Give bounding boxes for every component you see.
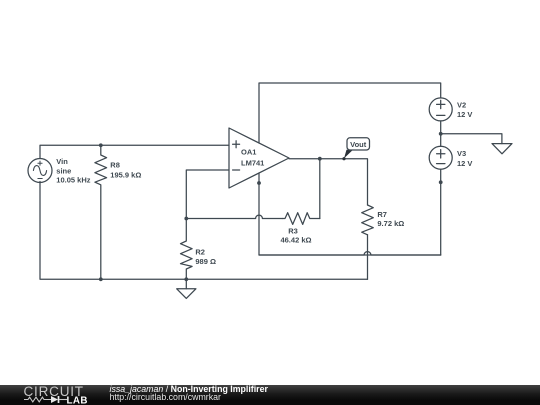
- node output junction: [318, 157, 322, 161]
- svg-text:V2: V2: [457, 100, 466, 109]
- footer bar: [0, 385, 540, 405]
- node supply mid junction: [439, 132, 443, 136]
- svg-text:V3: V3: [457, 149, 466, 158]
- ground under R2: [177, 279, 196, 298]
- svg-text:12 V: 12 V: [457, 159, 472, 168]
- wire junction to right ground: [441, 134, 502, 144]
- svg-text:R7: R7: [377, 210, 387, 219]
- wire Vin bottom: [40, 182, 368, 280]
- svg-text:989 Ω: 989 Ω: [195, 257, 216, 266]
- label R8 value: [110, 160, 141, 179]
- wire op-amp V+ supply: [259, 83, 441, 143]
- label V3 value: [457, 149, 472, 168]
- svg-text:Vin: Vin: [56, 157, 68, 166]
- resistor R3: [283, 213, 320, 225]
- svg-text:195.9 kΩ: 195.9 kΩ: [110, 171, 141, 180]
- wire output row: [289, 159, 368, 205]
- svg-text:R2: R2: [195, 247, 205, 256]
- svg-text:46.42 kΩ: 46.42 kΩ: [280, 236, 311, 245]
- resistor R7: [362, 205, 374, 235]
- node inverting node junction: [184, 217, 188, 221]
- voltage source V3: [429, 146, 452, 169]
- wire feedback row with hop: [186, 215, 282, 218]
- svg-text:9.72 kΩ: 9.72 kΩ: [377, 219, 404, 228]
- svg-text:10.05 kHz: 10.05 kHz: [56, 176, 90, 185]
- svg-text:12 V: 12 V: [457, 110, 472, 119]
- resistor R2: [181, 219, 193, 280]
- node below V3 junction: [439, 180, 443, 184]
- resistor R8: [95, 145, 107, 279]
- op-amp OA1: [229, 128, 289, 188]
- CircuitLab logo: [18, 385, 114, 405]
- svg-text:LAB: LAB: [67, 395, 88, 405]
- wire V2 to junction: [440, 121, 442, 146]
- label R7 value: [377, 210, 404, 228]
- label OA1: [241, 148, 264, 168]
- label Vin value: [56, 157, 90, 184]
- svg-text:sine: sine: [56, 166, 71, 175]
- node op-amp V- pin junction: [257, 181, 261, 185]
- node R2 bottom junction: [184, 277, 188, 281]
- wire R7 bottom with hop crossing: [367, 235, 369, 279]
- node Vout flag: [342, 138, 369, 160]
- node R8 bottom junction: [99, 277, 103, 281]
- voltage source Vin: [28, 159, 52, 183]
- svg-text:LM741: LM741: [241, 159, 264, 168]
- wire V- supply hop: [259, 252, 441, 255]
- label R2 value: [195, 247, 216, 266]
- wire inverting input: [186, 170, 229, 219]
- node R8 top junction: [99, 143, 103, 147]
- wire V3 bottom: [440, 169, 442, 255]
- label V2 value: [457, 100, 472, 119]
- svg-text:R8: R8: [110, 160, 120, 169]
- svg-text:R3: R3: [288, 226, 298, 235]
- footer text: [110, 385, 268, 401]
- svg-text:OA1: OA1: [241, 148, 256, 157]
- svg-text:Vout: Vout: [350, 140, 367, 149]
- wire R3 to output: [319, 159, 321, 219]
- label R3 value: [280, 226, 311, 244]
- voltage source V2: [429, 98, 452, 121]
- wire top input rail: [40, 145, 229, 158]
- wire op-amp V- pin down: [259, 173, 441, 255]
- ground right: [492, 144, 512, 154]
